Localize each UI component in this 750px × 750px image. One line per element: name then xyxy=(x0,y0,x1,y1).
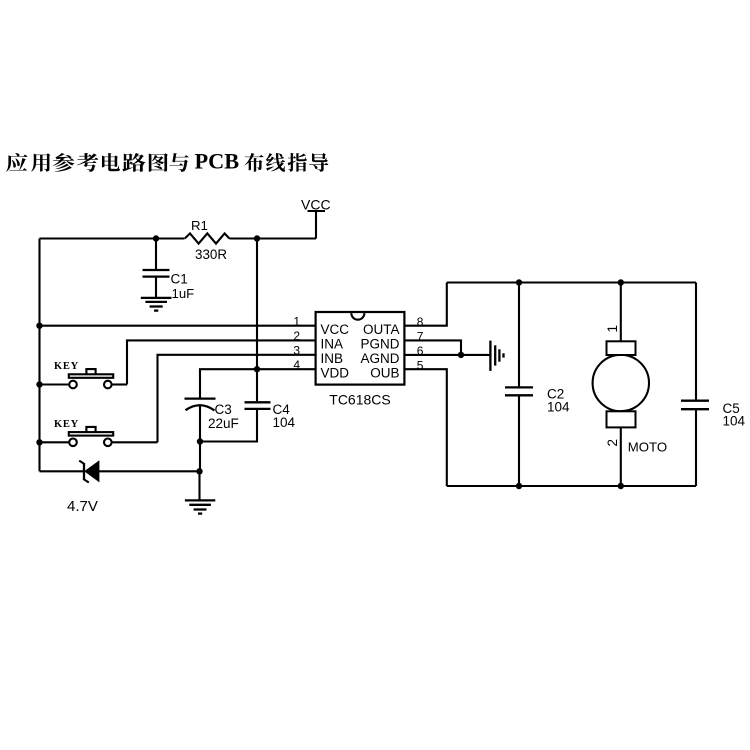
svg-text:4: 4 xyxy=(293,358,300,372)
zener diode D1 4.7V xyxy=(40,461,200,515)
power flag bar under VCC xyxy=(308,210,326,212)
svg-text:KEY: KEY xyxy=(54,419,79,430)
wire VCC stub xyxy=(315,211,317,239)
node junction left rail / KEY2 xyxy=(36,439,42,445)
wire pin8 to top rail xyxy=(404,283,446,326)
node junction left rail / pin1 xyxy=(36,323,42,329)
wire pin4 (VDD) xyxy=(200,369,316,397)
svg-text:KEY: KEY xyxy=(54,361,79,372)
wire left rail xyxy=(38,239,40,472)
svg-text:4.7V: 4.7V xyxy=(67,498,98,515)
svg-text:C1: C1 xyxy=(171,272,188,287)
node junction zener / ground xyxy=(196,468,202,474)
svg-text:104: 104 xyxy=(547,400,570,415)
capacitor C3 (electrolytic 22uF) xyxy=(185,399,239,472)
svg-text:R1: R1 xyxy=(191,218,208,233)
resistor R1 xyxy=(185,218,230,262)
svg-text:PGND: PGND xyxy=(360,337,399,352)
svg-text:8: 8 xyxy=(417,315,424,329)
svg-text:VCC: VCC xyxy=(321,322,350,337)
ground under C1 xyxy=(141,298,172,311)
svg-text:104: 104 xyxy=(273,415,296,430)
switch KEY (S2) xyxy=(40,419,158,446)
svg-text:AGND: AGND xyxy=(360,351,399,366)
motor MOTO xyxy=(593,283,668,487)
node junction at R1 right / C4 column xyxy=(254,235,260,241)
wire pin1 (VCC) xyxy=(40,325,316,327)
wire bottom rail right xyxy=(447,485,696,487)
node junction at C1 top xyxy=(153,235,159,241)
svg-text:MOTO: MOTO xyxy=(628,440,667,455)
switch KEY (S1) xyxy=(40,361,128,388)
wire pin7 xyxy=(404,340,461,355)
svg-text:1: 1 xyxy=(605,325,620,333)
svg-text:VDD: VDD xyxy=(321,365,350,380)
svg-text:INB: INB xyxy=(321,351,344,366)
capacitor C2 (104) xyxy=(505,283,570,487)
capacitor C5 (104) xyxy=(681,283,746,487)
wire pin2 (INA) xyxy=(127,340,316,384)
svg-text:2: 2 xyxy=(293,329,300,343)
node junction pin7/pin6 xyxy=(458,352,464,358)
node junction bottom rail / C2 xyxy=(516,483,522,489)
svg-text:INA: INA xyxy=(321,337,344,352)
svg-text:7: 7 xyxy=(417,330,424,344)
svg-text:OUTA: OUTA xyxy=(363,322,400,337)
svg-text:2: 2 xyxy=(605,439,620,447)
svg-text:1: 1 xyxy=(293,314,300,328)
svg-text:330R: 330R xyxy=(195,247,227,262)
node junction top rail / C2 xyxy=(516,279,522,285)
svg-text:OUB: OUB xyxy=(370,365,399,380)
title: 应用参考电路图与 PCB 布线指导 xyxy=(6,149,328,174)
svg-text:TC618CS: TC618CS xyxy=(329,392,390,408)
wire pin3 (INB) xyxy=(158,355,316,443)
wire pin5 to bottom rail xyxy=(404,369,446,486)
svg-text:22uF: 22uF xyxy=(208,416,239,431)
op-amp/driver IC U1 TC618CS xyxy=(316,312,405,408)
ground at pin6 (bar style) xyxy=(490,341,503,371)
wire pin6 to ground xyxy=(404,354,489,356)
capacitor C4 (104) xyxy=(200,239,296,442)
node junction pin4 line / C4 xyxy=(254,366,260,372)
node junction bottom rail / motor xyxy=(618,483,624,489)
svg-text:3: 3 xyxy=(293,344,300,358)
ground under C3 xyxy=(185,471,215,513)
node junction top rail / motor xyxy=(618,279,624,285)
node junction C3/C4 bottom xyxy=(197,438,203,444)
svg-text:PCB: PCB xyxy=(195,149,240,174)
capacitor C1 xyxy=(143,239,195,302)
wire R1 right to VCC xyxy=(229,237,316,239)
svg-text:C3: C3 xyxy=(215,402,232,417)
wire top rail right xyxy=(447,281,696,283)
svg-text:1uF: 1uF xyxy=(172,286,195,301)
node junction left rail / KEY1 xyxy=(36,381,42,387)
wire top rail left segment xyxy=(40,237,185,239)
svg-text:104: 104 xyxy=(723,414,746,429)
